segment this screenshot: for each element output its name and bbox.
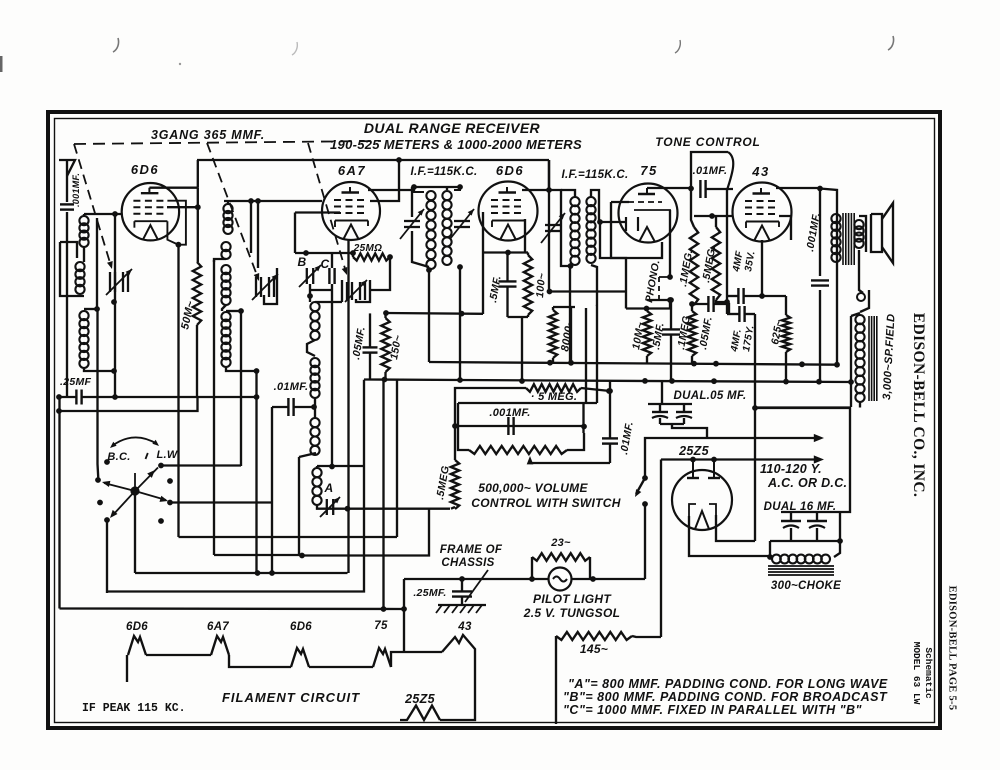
wire tone loop <box>691 152 728 189</box>
junction dot screen bottom <box>382 377 388 383</box>
wire cathode node <box>484 251 525 253</box>
wire diode load lead <box>626 307 670 309</box>
wire .5MF 75 stubs <box>670 300 672 381</box>
wire 6A7 cathode rail <box>347 240 349 573</box>
wire .5MEG avc left <box>455 388 526 426</box>
wire 150 stubs <box>384 313 386 379</box>
junction dot sb6 <box>834 362 840 368</box>
svg-text:I.F.=115K.C.: I.F.=115K.C. <box>562 169 629 181</box>
label .5MF 75 <box>650 322 667 351</box>
resistor 8000 ohm <box>549 310 557 358</box>
wire chassis cap stub <box>461 579 463 604</box>
junction dot field bottom <box>752 405 758 411</box>
wire 23 legs <box>532 557 590 579</box>
wire C2 top <box>257 201 259 268</box>
svg-text:IF PEAK 115 KC.: IF PEAK 115 KC. <box>82 702 186 715</box>
wire L9 bottom <box>299 453 316 457</box>
svg-text:6A7: 6A7 <box>207 621 229 633</box>
label .5MEG tone <box>700 245 718 284</box>
svg-text:10M~: 10M~ <box>630 321 647 350</box>
wire mesh x397 <box>396 380 398 537</box>
wire avc bus y426 <box>455 425 584 427</box>
label .05MF screen <box>350 326 368 361</box>
junction dot bus1 left <box>56 394 62 400</box>
label 23 ohm <box>550 537 571 549</box>
svg-text:"A"= 800 MMF. PADDING COND. FO: "A"= 800 MMF. PADDING COND. FOR LONG WAV… <box>568 677 888 691</box>
coil choke 300 ohm <box>772 555 830 564</box>
label TONE CONTROL <box>655 135 760 149</box>
label A <box>324 481 334 495</box>
label .001MF avc <box>489 407 530 419</box>
junction dot L6 top tap <box>238 308 244 314</box>
wire phono upper stub <box>659 210 670 277</box>
wire rail x214 to switch <box>213 260 215 555</box>
svg-text:25Z5: 25Z5 <box>404 692 435 706</box>
junction dot B bottom <box>307 293 313 299</box>
wire tone drop <box>726 190 728 302</box>
svg-text:.01MF.: .01MF. <box>693 165 728 177</box>
note line B <box>563 690 888 704</box>
variable capacitor C2 tuning <box>252 274 278 300</box>
wire AC arrow 2 <box>661 455 824 463</box>
svg-text:75: 75 <box>374 620 388 632</box>
wire speaker return <box>860 290 869 312</box>
coil L2 box <box>60 242 84 296</box>
wire dual05 bottom <box>660 424 707 438</box>
capacitor dual .05 a <box>652 404 668 424</box>
resistor 25M ohm <box>353 253 390 260</box>
wire .5MEG avc right <box>581 388 610 391</box>
wire 43 screen <box>779 216 791 240</box>
wire dual16 top <box>781 440 850 512</box>
tube 6D6 RF <box>122 183 186 248</box>
text MODEL 63 LW <box>911 642 922 705</box>
junction dot tone bottom <box>724 299 730 305</box>
trimmer IF1 secondary <box>450 209 474 239</box>
border frame outer <box>48 112 940 728</box>
wire antenna cap to bus <box>66 212 68 397</box>
junction dot A box <box>329 464 335 470</box>
wire 75 cathode return <box>611 202 662 258</box>
lamp pilot light <box>549 568 572 591</box>
junction dot avc cap right <box>581 424 587 430</box>
tube 6D6 IF <box>479 182 538 241</box>
svg-text:75: 75 <box>640 163 657 178</box>
wire .01MF right <box>294 406 314 408</box>
svg-text:TONE CONTROL: TONE CONTROL <box>655 135 760 149</box>
coil L9 osc anode <box>310 418 319 455</box>
svg-text:I.F.=115K.C.: I.F.=115K.C. <box>411 166 478 178</box>
speaker <box>871 203 893 263</box>
label 25Z5 filament <box>404 692 435 706</box>
variable capacitor C1 tuning <box>106 269 132 295</box>
wire L1 bottom jog <box>83 247 85 262</box>
wire 43 cathode <box>761 240 763 295</box>
svg-text:EDISON-BELL PAGE 5-5: EDISON-BELL PAGE 5-5 <box>947 586 958 711</box>
junction dot mesh 299 <box>299 553 305 559</box>
svg-text:CHASSIS: CHASSIS <box>441 557 494 569</box>
resistor volume 500k <box>469 446 567 454</box>
coil IF2 secondary <box>586 197 595 263</box>
junction dot plate1 <box>690 457 696 463</box>
wire AVC bus <box>59 396 257 398</box>
wire L1 top to grid <box>84 213 122 215</box>
junction dot mesh 257-573 <box>255 570 261 576</box>
tube 25Z5 rectifier <box>672 459 732 530</box>
junction dot bus608 a <box>381 606 387 612</box>
label 10M ohm <box>630 321 647 350</box>
wire .05MF avc <box>692 304 729 314</box>
label .01MF coupling <box>693 165 728 177</box>
note line C <box>563 703 863 717</box>
resistor .1MEG plate <box>690 227 698 305</box>
text EDISON-BELL CO. INC. <box>910 313 927 498</box>
label IF2 115KC <box>562 169 629 181</box>
junction dot osc tap <box>311 404 317 410</box>
svg-text:300~CHOKE: 300~CHOKE <box>771 580 841 592</box>
laminations choke <box>768 566 834 575</box>
junction dot cathode bus <box>519 378 525 384</box>
junction dot IF1 top left <box>411 184 417 190</box>
wire L3 bottom <box>84 368 114 371</box>
junction dot bus608 b <box>401 606 407 612</box>
wire IF1 top <box>414 186 460 188</box>
switch blade <box>635 478 645 497</box>
wire left rail long <box>58 397 60 609</box>
capacitor .01MF af <box>602 438 618 443</box>
svg-text:B: B <box>298 255 307 269</box>
ground chassis <box>436 605 486 613</box>
resistor .5MEG tone <box>712 227 720 300</box>
junction dot L3 top <box>94 306 100 312</box>
junction dot pilot right <box>590 576 596 582</box>
wire mesh y593 <box>107 380 364 592</box>
coil L7 osc grid <box>310 302 319 340</box>
label 8000 ohm <box>559 318 576 352</box>
label PILOT LIGHT <box>533 592 612 606</box>
wire osc tap <box>314 398 316 418</box>
label 6D6 first <box>131 162 159 177</box>
wire dual05 bus <box>648 403 692 405</box>
coil L5 <box>221 265 230 305</box>
label PHONO <box>643 259 662 304</box>
antenna <box>59 160 75 202</box>
svg-text:.01MF.: .01MF. <box>274 381 309 393</box>
capacitor .01MF osc <box>288 398 293 416</box>
trimmer IF2 primary <box>541 213 565 243</box>
wire 43 plate top <box>776 187 820 189</box>
resistor 10M ohm <box>643 311 651 356</box>
svg-text:PILOT LIGHT: PILOT LIGHT <box>533 592 612 606</box>
wire 6A7 plate to IF1 <box>368 187 414 190</box>
resistor .1MEG avc <box>688 311 696 356</box>
junction dot grid tap <box>112 211 118 217</box>
wire b rail up <box>755 408 850 440</box>
label CHASSIS <box>441 557 494 569</box>
svg-text:6D6: 6D6 <box>496 163 524 178</box>
junction dot 5MEG-h right <box>607 388 613 394</box>
wire 6A7 grid from top bus <box>370 160 399 201</box>
wire 6D6IF grid <box>446 187 448 190</box>
wire rail x241 <box>240 311 242 466</box>
wire 6A7 signal grid <box>295 211 340 213</box>
svg-text:.01MF.: .01MF. <box>618 421 636 456</box>
wire 6D6 cathode drop <box>177 245 179 538</box>
label 110-120V <box>760 462 822 476</box>
label .5MEG avc <box>531 391 577 403</box>
junction dot .01 top <box>606 388 612 394</box>
capacitor dual .05 b <box>676 404 692 424</box>
wire 10M ends <box>646 309 648 363</box>
wire 6D6IF plate <box>522 189 549 191</box>
wire 100 top <box>525 253 528 256</box>
wire ground bus y608 <box>60 607 405 610</box>
wire 50M bottom <box>196 325 198 397</box>
label DUAL 16MF <box>764 501 837 513</box>
wire coupling right <box>706 188 733 190</box>
svg-text:FRAME OF: FRAME OF <box>440 544 503 556</box>
dashed gang line to C3 <box>308 143 347 275</box>
coil L3 <box>79 311 88 368</box>
junction dot 25M left <box>350 250 356 256</box>
label 300 ohm choke <box>771 580 841 592</box>
capacitor .5MF cathode <box>499 281 517 286</box>
wire osc coil jog <box>307 340 315 356</box>
wire osc box left rail <box>294 213 296 254</box>
wire L3 top <box>84 308 97 310</box>
resistor 145 ohm <box>556 632 632 640</box>
wire mesh y537 <box>179 536 398 538</box>
label DUAL .05MF <box>674 390 747 402</box>
title DUAL RANGE RECEIVER <box>364 120 541 136</box>
svg-text:.05MF.: .05MF. <box>350 326 368 361</box>
label C <box>321 257 330 271</box>
wire C3 box <box>342 280 370 302</box>
label 75 <box>640 163 657 178</box>
junction dot plate2 <box>711 457 717 463</box>
wire volume body <box>458 426 584 450</box>
laminations output transformer <box>843 213 854 265</box>
junction dot chassis cap <box>459 576 465 582</box>
wire avc down <box>582 403 584 433</box>
wire wiper <box>530 462 610 464</box>
resistor 150 ohm <box>381 318 389 372</box>
tube 6A7 <box>322 182 380 240</box>
svg-text:2.5 V. TUNGSOL: 2.5 V. TUNGSOL <box>523 606 620 620</box>
wire A bottom <box>317 505 450 509</box>
junction dot phono lower <box>667 297 673 303</box>
junction dot sb4 <box>713 361 719 367</box>
wire B plus bus y381 <box>460 380 851 382</box>
coil L2 <box>75 262 84 294</box>
coil L8 osc <box>310 358 319 398</box>
label .1MEG plate <box>677 249 695 288</box>
text Schematic <box>923 647 934 699</box>
svg-text:110-120 Y.: 110-120 Y. <box>760 462 822 476</box>
resistor 23 ohm <box>532 553 590 561</box>
junction dot bb5 <box>816 379 822 385</box>
border frame inner <box>55 119 935 723</box>
junction dot 43 grid <box>709 213 715 219</box>
wire .05MF stubs <box>369 313 371 379</box>
junction dot bb1 <box>642 378 648 384</box>
coil IF1 primary <box>414 187 436 269</box>
label 50M ohm <box>179 299 197 330</box>
wire 6D6 screen exit <box>167 206 198 208</box>
svg-text:25Z5: 25Z5 <box>678 444 709 458</box>
label 43 <box>751 164 769 179</box>
resistor 5MEG osc grid <box>451 460 459 509</box>
laminations field coil <box>869 316 877 401</box>
capacitor .001MF avc <box>508 417 513 435</box>
wire .5MF stubs <box>506 253 508 318</box>
junction dot screen top <box>383 310 389 316</box>
svg-text:43: 43 <box>457 621 472 633</box>
label filament 6D6 b <box>290 621 312 633</box>
capacitor .001MF output <box>811 280 829 285</box>
junction dot screen tap <box>547 289 553 295</box>
wire avc box right riser <box>597 306 598 403</box>
resistor .5MEG avc h <box>526 384 581 392</box>
label .01MF osc <box>274 381 309 393</box>
junction dot IF1 bottom right <box>457 264 463 270</box>
wire avc mid riser <box>585 308 587 403</box>
junction dot bb3 <box>711 378 717 384</box>
junction dot field top <box>848 379 854 385</box>
wire C3 to coil <box>315 301 342 303</box>
wire cathode bottom node <box>508 315 529 317</box>
label volume control line2 <box>471 496 620 510</box>
coil output transformer secondary <box>854 220 863 248</box>
wire 6D6IF cathode <box>524 219 526 253</box>
junction dot sb3 <box>691 361 697 367</box>
wire 43 grid <box>694 215 733 217</box>
wire B plus rail x755 <box>754 314 756 541</box>
junction dot IF2 bottom <box>568 263 574 269</box>
wire .5MEG ends <box>716 216 727 302</box>
wire L6 bottom <box>226 367 257 371</box>
svg-text:FILAMENT CIRCUIT: FILAMENT CIRCUIT <box>222 690 360 705</box>
junction dot IF1 top right <box>457 184 463 190</box>
capacitor dual16 a <box>781 512 801 541</box>
junction dot detector <box>597 219 603 225</box>
trimmer IF1 primary <box>400 209 424 239</box>
tube 75 detector <box>619 184 678 243</box>
svg-text:.25MF.: .25MF. <box>413 587 446 599</box>
wire mesh y556 <box>214 554 302 556</box>
capacitor 4MF 175V <box>727 306 755 322</box>
label 6A7 <box>338 163 366 178</box>
wire speaker voice coil <box>859 216 866 293</box>
wire mesh y502 <box>170 501 272 503</box>
label .25MF left <box>60 376 92 388</box>
wire lower contact <box>106 520 108 593</box>
wire 145 left <box>555 636 557 724</box>
junction dot B top <box>303 250 309 256</box>
wire phono lower down <box>669 300 671 309</box>
wire 75 plate top <box>647 187 691 189</box>
dashed gang line to C2 <box>207 143 259 281</box>
wire IF2 box <box>549 190 575 266</box>
capacitor .01MF coupling <box>700 180 705 198</box>
wire 625 ends <box>762 296 786 381</box>
capacitor .25MF chassis <box>452 591 472 596</box>
wire L4 top to grid bus <box>224 200 322 202</box>
svg-text:C: C <box>321 257 330 271</box>
label 4MF 175V <box>729 324 757 353</box>
wire 25Z5 cathode right <box>716 515 755 541</box>
svg-text:A: A <box>324 481 334 495</box>
resistor 50M ohm <box>193 262 201 325</box>
wire top bus <box>197 159 399 161</box>
wire avc box top <box>458 403 597 426</box>
wire dual16 bottom <box>770 540 840 542</box>
label 145 ohm <box>580 642 608 656</box>
label IF1 115KC <box>411 166 478 178</box>
svg-text:"B"= 800 MMF. PADDING COND. FO: "B"= 800 MMF. PADDING COND. FOR BROADCAS… <box>563 690 888 704</box>
svg-text:6D6: 6D6 <box>290 621 312 633</box>
junction dot 6D6 plate <box>195 204 201 210</box>
svg-text:.25MF: .25MF <box>60 376 92 388</box>
svg-text:EDISON-BELL CO., INC.: EDISON-BELL CO., INC. <box>910 313 927 498</box>
junction dot rail549 <box>546 187 552 193</box>
svg-text:6D6: 6D6 <box>131 162 159 177</box>
coil IF1 secondary <box>442 187 460 265</box>
wire LW contact <box>161 464 241 466</box>
junction dot diode load <box>644 306 650 312</box>
resistor 100 ohm <box>524 255 532 315</box>
wire 575 drop <box>553 307 575 363</box>
label AC or DC <box>767 476 847 490</box>
junction dot sb5 <box>799 361 805 367</box>
label filament 6A7 <box>207 621 229 633</box>
svg-text:B.C.: B.C. <box>107 451 130 463</box>
wire rail x549 <box>548 160 550 292</box>
label filament 6D6 a <box>126 621 148 633</box>
capacitor .5MF 75 <box>662 329 680 334</box>
wire IF1 secondary bottom <box>459 267 461 380</box>
svg-text:3,000~SP.FIELD: 3,000~SP.FIELD <box>881 313 897 400</box>
junction dot bb0 <box>457 377 463 383</box>
label volume control line1 <box>478 481 588 495</box>
junction dot sb1 <box>547 360 553 366</box>
junction dot cathode 43 <box>759 293 765 299</box>
junction dot switch bottom <box>642 501 648 507</box>
wire rail x661 <box>660 460 662 638</box>
coil L6 <box>221 312 230 367</box>
junction dot L4b <box>255 198 261 204</box>
wire rail x256 down <box>255 371 257 397</box>
wiper volume <box>527 456 534 464</box>
text EDISON-BELL PAGE 5-5 <box>947 586 958 711</box>
wire 25Z5 cathode left <box>689 516 770 556</box>
capacitor A padder <box>320 497 340 517</box>
junction dot L6 bottom <box>254 368 260 374</box>
wire IF1 primary bottom <box>428 270 430 362</box>
wire tone drop to bus <box>726 302 728 314</box>
wire IF2 secondary top <box>591 190 599 222</box>
junction dot avc <box>689 301 695 307</box>
wire 75 diode lead <box>600 221 626 223</box>
wire chassis top <box>404 578 548 580</box>
wire chassis drop <box>403 579 405 652</box>
label 625 ohm <box>769 319 785 346</box>
svg-text:6A7: 6A7 <box>338 163 366 178</box>
wire screen bypass bus <box>364 378 462 381</box>
label .001MF antenna <box>71 173 81 207</box>
variable capacitor C3 osc <box>345 280 367 302</box>
switch arc <box>110 437 159 448</box>
